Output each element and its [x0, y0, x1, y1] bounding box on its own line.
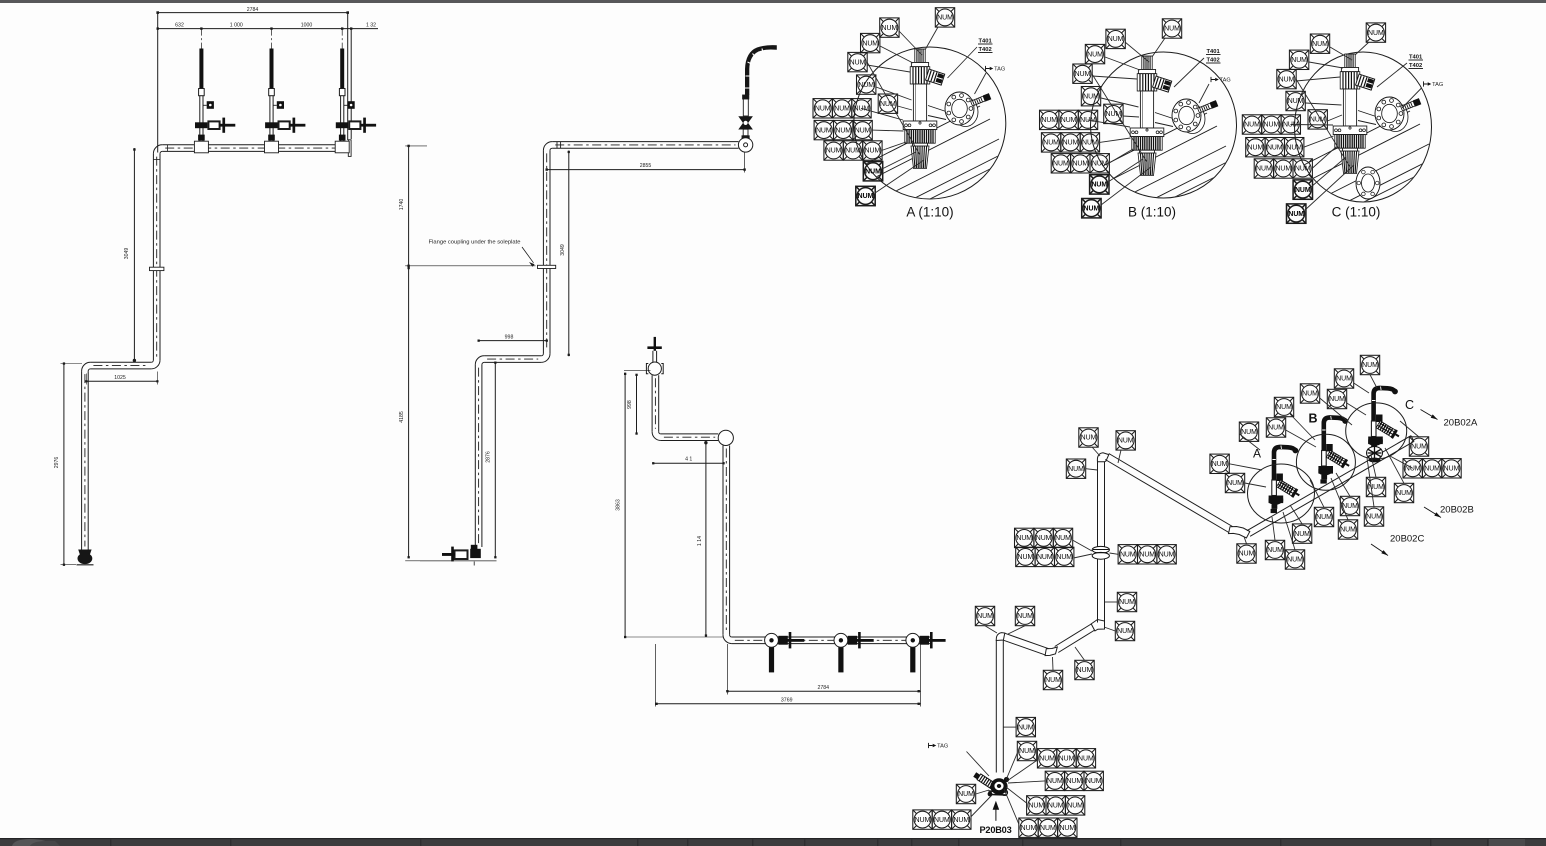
svg-text:4185: 4185 [399, 411, 405, 423]
svg-text:NUM: NUM [1424, 466, 1440, 473]
svg-text:NUM: NUM [1244, 122, 1260, 129]
svg-text:NUM: NUM [1336, 376, 1352, 383]
svg-text:4 1: 4 1 [685, 457, 692, 463]
svg-text:NUM: NUM [1288, 98, 1304, 105]
svg-text:NUM: NUM [865, 168, 881, 175]
svg-text:NUM: NUM [1066, 778, 1082, 785]
svg-text:NUM: NUM [862, 40, 878, 47]
svg-text:NUM: NUM [1118, 438, 1134, 445]
svg-text:NUM: NUM [1018, 724, 1034, 731]
svg-text:NUM: NUM [1018, 554, 1034, 561]
svg-text:1 000: 1 000 [230, 23, 243, 29]
svg-text:TAG: TAG [1432, 82, 1443, 88]
svg-text:20B02A: 20B02A [1444, 418, 1478, 429]
svg-text:632: 632 [175, 23, 184, 29]
svg-text:2976: 2976 [54, 457, 60, 469]
svg-text:NUM: NUM [1078, 756, 1094, 763]
svg-text:NUM: NUM [1256, 166, 1272, 173]
svg-text:NUM: NUM [1248, 144, 1264, 151]
svg-text:2784: 2784 [247, 7, 259, 13]
svg-text:NUM: NUM [1056, 554, 1072, 561]
svg-text:NUM: NUM [1055, 535, 1071, 542]
svg-text:A: A [1253, 447, 1261, 461]
svg-text:NUM: NUM [854, 106, 870, 113]
svg-text:NUM: NUM [815, 106, 831, 113]
svg-text:20B02C: 20B02C [1390, 534, 1424, 545]
svg-text:NUM: NUM [937, 15, 953, 22]
svg-text:NUM: NUM [1063, 140, 1079, 147]
svg-text:NUM: NUM [1019, 748, 1035, 755]
svg-text:NUM: NUM [1091, 182, 1107, 189]
svg-text:NUM: NUM [865, 148, 881, 155]
svg-text:NUM: NUM [816, 127, 832, 134]
svg-text:NUM: NUM [1329, 396, 1345, 403]
svg-text:NUM: NUM [1139, 552, 1155, 559]
svg-text:NUM: NUM [1275, 166, 1291, 173]
svg-text:3863: 3863 [616, 499, 622, 511]
svg-text:NUM: NUM [1288, 211, 1304, 218]
svg-text:NUM: NUM [1291, 57, 1307, 64]
svg-text:NUM: NUM [977, 613, 993, 620]
svg-text:NUM: NUM [1366, 514, 1382, 521]
svg-text:1 32: 1 32 [366, 23, 376, 29]
svg-text:NUM: NUM [1241, 429, 1257, 436]
svg-text:NUM: NUM [1017, 613, 1033, 620]
svg-text:NUM: NUM [1164, 26, 1180, 33]
svg-text:NUM: NUM [1267, 547, 1283, 554]
svg-text:NUM: NUM [1276, 404, 1292, 411]
svg-text:NUM: NUM [1028, 803, 1044, 810]
svg-text:NUM: NUM [1061, 117, 1077, 124]
svg-text:NUM: NUM [1077, 667, 1093, 674]
svg-text:NUM: NUM [1340, 527, 1356, 534]
svg-text:NUM: NUM [915, 817, 931, 824]
svg-text:NUM: NUM [835, 127, 851, 134]
svg-text:998: 998 [505, 334, 514, 340]
svg-text:3769: 3769 [781, 698, 793, 704]
svg-text:NUM: NUM [1047, 778, 1063, 785]
svg-text:NUM: NUM [934, 817, 950, 824]
svg-text:NUM: NUM [858, 193, 874, 200]
svg-text:NUM: NUM [834, 106, 850, 113]
svg-text:C (1:10): C (1:10) [1332, 205, 1381, 220]
svg-text:NUM: NUM [1310, 117, 1326, 124]
svg-text:NUM: NUM [1316, 514, 1332, 521]
svg-text:NUM: NUM [1045, 677, 1061, 684]
svg-text:NUM: NUM [1068, 466, 1084, 473]
svg-text:TAG: TAG [937, 744, 948, 750]
svg-text:NUM: NUM [1279, 76, 1295, 83]
svg-text:NUM: NUM [1405, 466, 1421, 473]
svg-text:NUM: NUM [1286, 144, 1302, 151]
svg-text:NUM: NUM [1411, 444, 1427, 451]
svg-text:NUM: NUM [826, 148, 842, 155]
svg-text:2784: 2784 [818, 685, 830, 691]
svg-text:NUM: NUM [880, 101, 896, 108]
svg-text:NUM: NUM [858, 82, 874, 89]
svg-text:1 14: 1 14 [697, 536, 703, 546]
svg-text:NUM: NUM [1087, 51, 1103, 58]
svg-text:2855: 2855 [640, 163, 652, 169]
svg-text:NUM: NUM [958, 791, 974, 798]
svg-text:NUM: NUM [1084, 205, 1100, 212]
svg-text:NUM: NUM [1016, 535, 1032, 542]
svg-text:P20B03: P20B03 [979, 825, 1011, 835]
svg-text:NUM: NUM [1053, 161, 1069, 168]
svg-text:NUM: NUM [1295, 187, 1311, 194]
svg-text:1740: 1740 [399, 199, 405, 211]
svg-text:NUM: NUM [1083, 93, 1099, 100]
svg-text:NUM: NUM [1342, 503, 1358, 510]
svg-text:NUM: NUM [1082, 140, 1098, 147]
svg-text:20B02B: 20B02B [1440, 505, 1474, 516]
svg-text:NUM: NUM [1119, 599, 1135, 606]
svg-text:NUM: NUM [1041, 117, 1057, 124]
svg-text:1025: 1025 [114, 375, 126, 381]
svg-text:3049: 3049 [560, 244, 566, 256]
svg-text:NUM: NUM [855, 127, 871, 134]
svg-text:B: B [1308, 412, 1317, 426]
svg-text:NUM: NUM [1092, 161, 1108, 168]
svg-text:1000: 1000 [301, 23, 313, 29]
svg-text:998: 998 [627, 400, 633, 409]
svg-text:NUM: NUM [1036, 535, 1052, 542]
svg-text:3049: 3049 [124, 248, 130, 260]
svg-text:NUM: NUM [845, 148, 861, 155]
svg-text:NUM: NUM [1086, 778, 1102, 785]
svg-text:NUM: NUM [1120, 552, 1136, 559]
svg-text:NUM: NUM [1048, 803, 1064, 810]
svg-text:NUM: NUM [1362, 362, 1378, 369]
svg-text:C: C [1405, 398, 1414, 412]
svg-text:NUM: NUM [1312, 41, 1328, 48]
svg-text:NUM: NUM [1159, 552, 1175, 559]
svg-text:NUM: NUM [850, 59, 866, 66]
svg-text:NUM: NUM [1294, 531, 1310, 538]
svg-text:NUM: NUM [1072, 161, 1088, 168]
svg-text:NUM: NUM [1067, 803, 1083, 810]
svg-text:NUM: NUM [1040, 825, 1056, 832]
svg-text:NUM: NUM [1368, 30, 1384, 37]
svg-text:NUM: NUM [882, 25, 898, 32]
svg-text:2876: 2876 [486, 451, 492, 463]
svg-text:TAG: TAG [1220, 78, 1231, 84]
svg-text:NUM: NUM [1212, 461, 1228, 468]
svg-text:NUM: NUM [1268, 425, 1284, 432]
svg-text:NUM: NUM [1264, 122, 1280, 129]
svg-text:NUM: NUM [1059, 756, 1075, 763]
svg-text:NUM: NUM [1021, 825, 1037, 832]
svg-text:NUM: NUM [1075, 71, 1091, 78]
svg-text:NUM: NUM [1037, 554, 1053, 561]
svg-text:NUM: NUM [1227, 480, 1243, 487]
svg-text:NUM: NUM [1396, 490, 1412, 497]
svg-text:NUM: NUM [1059, 825, 1075, 832]
svg-text:NUM: NUM [1283, 122, 1299, 129]
svg-text:NUM: NUM [1043, 140, 1059, 147]
svg-text:NUM: NUM [1444, 466, 1460, 473]
svg-text:NUM: NUM [1287, 557, 1303, 564]
svg-text:TAG: TAG [994, 67, 1005, 73]
svg-text:NUM: NUM [1302, 391, 1318, 398]
svg-text:Flange coupling under the sole: Flange coupling under the soleplate [429, 240, 521, 246]
svg-text:NUM: NUM [1081, 435, 1097, 442]
svg-text:NUM: NUM [953, 817, 969, 824]
svg-text:NUM: NUM [1108, 36, 1124, 43]
svg-text:NUM: NUM [1239, 551, 1255, 558]
svg-text:NUM: NUM [1117, 628, 1133, 635]
svg-text:B (1:10): B (1:10) [1128, 205, 1176, 220]
svg-text:NUM: NUM [1267, 144, 1283, 151]
svg-text:A (1:10): A (1:10) [906, 205, 953, 220]
svg-text:NUM: NUM [1039, 756, 1055, 763]
svg-text:NUM: NUM [1295, 166, 1311, 173]
